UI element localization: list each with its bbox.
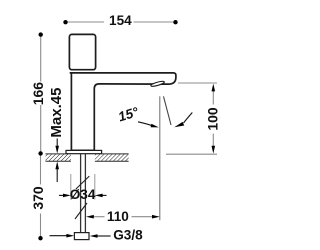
angle arrow at slant line	[174, 113, 192, 128]
dim O34 right arrow	[95, 194, 107, 198]
aerator	[150, 80, 164, 87]
dim 100 top arrow	[212, 84, 216, 92]
svg-text:Ø34: Ø34	[70, 187, 96, 202]
dim 100 line	[212, 90, 214, 147]
G3/8 pointer arrow left of nut	[50, 234, 75, 238]
break slash lower	[75, 203, 87, 219]
dim 110 left arrow	[86, 215, 94, 219]
label 15deg leader arrow	[138, 122, 159, 128]
supply pipe	[81, 154, 86, 233]
water stream vertical line	[159, 96, 161, 220]
countertop right hatched block	[95, 154, 129, 161]
dim 370 bottom dot	[38, 236, 42, 240]
dim 100 top extension line	[178, 82, 217, 84]
break slash upper	[76, 176, 89, 189]
dim 100 bottom arrow	[212, 146, 216, 154]
dim O34 left arrow	[59, 194, 71, 198]
faucet body and spout outline	[70, 73, 176, 150]
dim 370 junction dot	[38, 151, 42, 155]
svg-text:166: 166	[30, 82, 46, 106]
dim 166 line	[40, 34, 42, 153]
dim 154 dot right	[173, 20, 177, 24]
svg-text:100: 100	[204, 107, 220, 131]
dim Max.45 upper arrow	[55, 139, 59, 154]
svg-text:154: 154	[109, 13, 132, 28]
dim 100 bottom extension line	[166, 153, 217, 155]
dim 154 line	[66, 21, 176, 23]
countertop left hatched block	[46, 154, 71, 161]
dim 110 right arrow	[152, 215, 160, 219]
stream 15 deg slant line	[164, 96, 172, 125]
dim 166 dot top	[39, 32, 43, 36]
faucet handle	[69, 34, 95, 69]
dim 110 line	[93, 216, 153, 218]
dim 154 dot left	[63, 20, 67, 24]
dim Max.45 lower arrow	[55, 161, 59, 182]
svg-text:Max.45: Max.45	[48, 88, 65, 138]
dim O34 extension lines	[71, 174, 95, 200]
dim 370 line	[40, 153, 42, 238]
svg-text:G3/8: G3/8	[113, 227, 143, 242]
svg-text:110: 110	[107, 209, 129, 224]
svg-text:370: 370	[30, 186, 46, 210]
connector nut	[74, 233, 89, 240]
faucet base flange	[66, 150, 102, 153]
G3/8 label arrow	[90, 234, 111, 238]
